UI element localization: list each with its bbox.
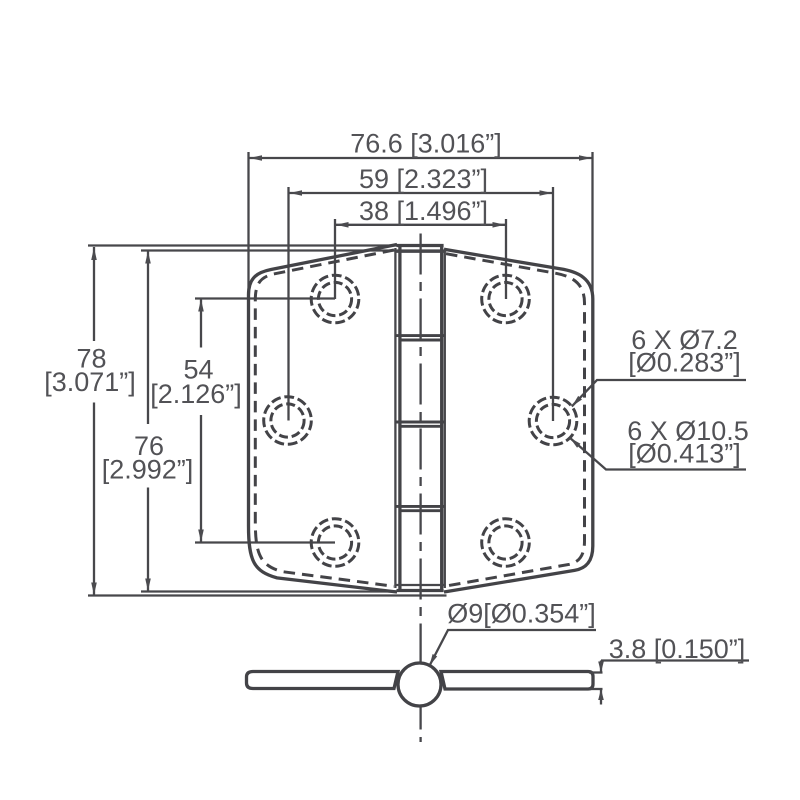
svg-text:[Ø0.283”]: [Ø0.283”] xyxy=(628,348,741,378)
svg-text:[3.071”]: [3.071”] xyxy=(44,367,136,397)
svg-text:38 [1.496”]: 38 [1.496”] xyxy=(359,196,488,226)
svg-text:[Ø0.413”]: [Ø0.413”] xyxy=(628,439,741,469)
svg-text:59 [2.323”]: 59 [2.323”] xyxy=(359,164,488,194)
svg-text:Ø9[Ø0.354”]: Ø9[Ø0.354”] xyxy=(447,599,596,629)
svg-text:[2.126”]: [2.126”] xyxy=(150,379,242,409)
svg-text:[2.992”]: [2.992”] xyxy=(102,455,194,485)
svg-text:76.6 [3.016”]: 76.6 [3.016”] xyxy=(350,129,502,159)
svg-text:3.8 [0.150”]: 3.8 [0.150”] xyxy=(609,634,746,664)
